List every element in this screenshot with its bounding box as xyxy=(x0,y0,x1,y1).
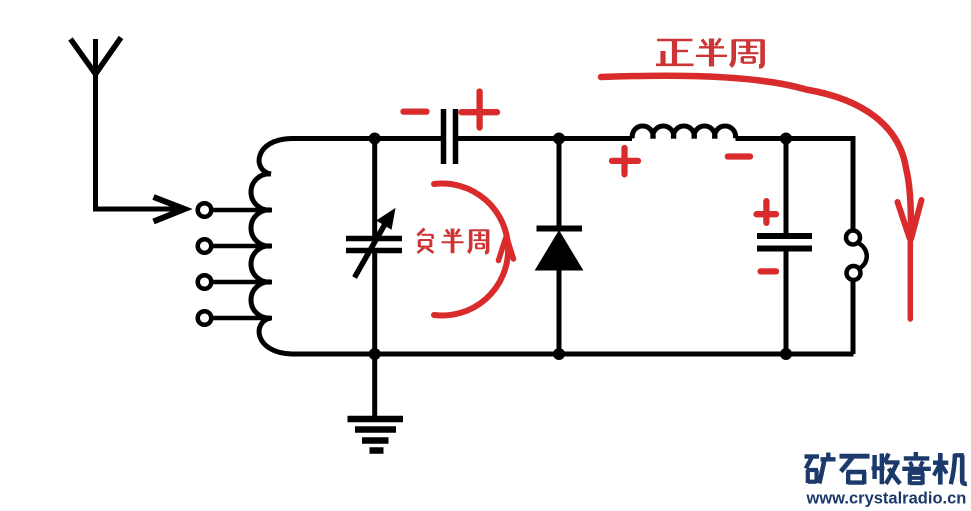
wire tap 1 xyxy=(212,208,272,213)
label text 正 (of 正半周) xyxy=(656,40,694,65)
wire top bus right (L2 to output) xyxy=(736,136,854,141)
wire diode branch upper xyxy=(557,136,562,228)
watermark glyph 收 xyxy=(872,454,901,485)
watermark glyph 机 xyxy=(933,453,967,485)
watermark glyph 矿 xyxy=(805,453,836,484)
watermark glyph 石 xyxy=(840,456,870,484)
coil L1 tapped winding xyxy=(251,139,292,355)
polarity label minus of L2 xyxy=(728,153,750,159)
terminal tap 3 xyxy=(198,275,212,289)
junction node F (bottom of C3 branch) xyxy=(780,348,792,360)
junction node A (top of C2 branch) xyxy=(369,133,381,145)
wire tap 4 xyxy=(212,316,272,321)
antenna ANT1 mast xyxy=(93,39,98,209)
wire antenna lead-in xyxy=(93,207,181,212)
positive half-cycle current curve xyxy=(601,76,911,232)
capacitor C2 variable top plate xyxy=(346,236,402,242)
diode D1 cathode bar xyxy=(537,226,583,232)
wire output branch upper xyxy=(851,136,856,229)
junction node B (top of diode branch) xyxy=(553,133,565,145)
polarity label minus of C3 xyxy=(761,268,776,274)
negative half-cycle current arc xyxy=(434,184,508,316)
ground bar 2 xyxy=(355,426,396,433)
negative half-cycle arrowhead left wing xyxy=(499,238,506,261)
negative half-cycle arrowhead right wing xyxy=(507,238,514,260)
label text 负 (of 负半周) xyxy=(418,229,434,253)
ground bar 3 xyxy=(362,437,389,444)
terminal J1 lower output xyxy=(847,266,861,280)
terminal J1 upper output xyxy=(846,231,860,245)
capacitor C3 top plate xyxy=(757,233,812,239)
wire top bus middle (C1 to L2) xyxy=(457,136,632,141)
antenna ANT1 right arm xyxy=(96,38,122,75)
capacitor C1 left plate xyxy=(441,109,447,164)
capacitor C3 bottom plate xyxy=(757,246,812,252)
wire bottom bus xyxy=(290,352,854,357)
wire C3 branch lower xyxy=(784,250,789,354)
wire tap 2 xyxy=(212,244,272,249)
wire diode branch lower xyxy=(557,270,562,354)
wire tap 3 xyxy=(212,280,272,285)
inductor L2 winding xyxy=(632,126,735,139)
label text 半 (of 负半周) xyxy=(442,229,464,254)
junction node D (bottom of C2/ground branch) xyxy=(369,348,381,360)
label text 周 (of 正半周) xyxy=(731,40,764,67)
arrowhead antenna feed xyxy=(154,197,185,222)
junction node C (top of C3 branch) xyxy=(780,133,792,145)
wire C2 branch upper xyxy=(372,136,377,240)
label text 半 (of 正半周) xyxy=(696,39,727,67)
polarity label minus of C1 xyxy=(404,108,427,114)
antenna ANT1 left arm xyxy=(71,39,96,74)
positive half-cycle arrowhead left wing xyxy=(898,202,910,239)
watermark glyph 音 xyxy=(902,452,931,485)
terminal tap 2 xyxy=(198,239,212,253)
capacitor C2 variable bottom plate xyxy=(346,248,402,254)
terminal tap 4 xyxy=(198,311,212,325)
wire C2 branch lower xyxy=(372,250,377,354)
capacitor C2 adjust arrow shaft xyxy=(355,224,386,278)
ground bar 4 xyxy=(370,447,384,454)
svg-text:www.crystalradio.cn: www.crystalradio.cn xyxy=(806,490,967,508)
capacitor C2 adjust arrowhead xyxy=(378,210,395,229)
wire top bus left (coil to C1) xyxy=(290,136,442,141)
label text 周 (of 负半周) xyxy=(468,230,488,254)
earphone cord curve between terminals xyxy=(858,243,867,269)
polarity label plus of L2 xyxy=(612,148,638,174)
junction node E (bottom of diode branch) xyxy=(553,348,565,360)
wire C3 branch upper xyxy=(784,136,789,234)
positive half-cycle arrowhead right wing xyxy=(911,200,921,239)
terminal tap 1 xyxy=(198,203,212,217)
diode D1 triangle xyxy=(536,231,583,270)
ground bar 1 xyxy=(348,416,404,423)
positive half-cycle arrow tail xyxy=(908,232,914,319)
capacitor C1 right plate xyxy=(453,109,459,164)
polarity label plus of C3 xyxy=(757,201,777,223)
polarity label plus of C1 xyxy=(462,92,498,128)
wire ground branch xyxy=(372,352,377,417)
wire output branch lower xyxy=(851,281,856,355)
